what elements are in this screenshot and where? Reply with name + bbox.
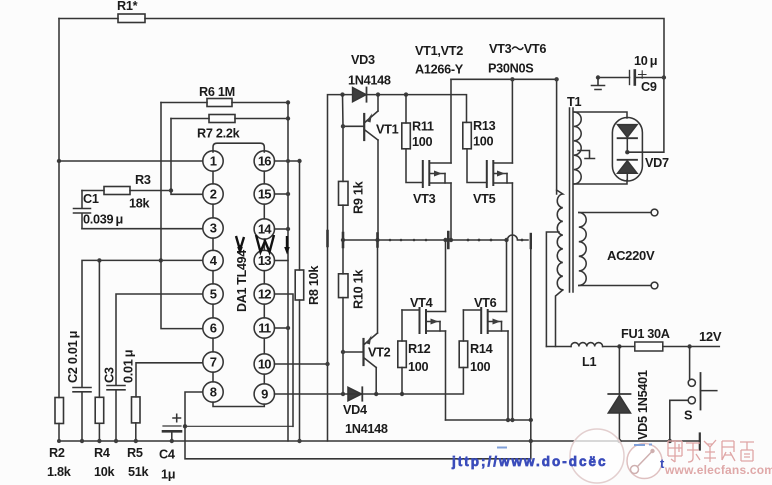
resistor R1: [118, 14, 145, 23]
svg-text:R12: R12: [408, 342, 431, 356]
svg-text:VT2: VT2: [368, 346, 391, 360]
wire VD7 center to right rail: [627, 78, 664, 153]
svg-text:5: 5: [210, 287, 217, 302]
ground rail end bar: [699, 434, 701, 450]
svg-text:R2: R2: [49, 446, 65, 460]
node R11 top junction: [404, 92, 408, 96]
resistor R13: [463, 122, 487, 182]
svg-text:14: 14: [258, 222, 272, 237]
node pin4-R6rail junction: [159, 258, 163, 262]
wire R9 R10 column: [342, 95, 345, 394]
svg-text:R7 2.2k: R7 2.2k: [197, 127, 241, 141]
pin numbers right: [258, 154, 272, 402]
node pin15 junction: [286, 192, 290, 196]
svg-text:16: 16: [258, 154, 271, 169]
node 12V switch junction: [687, 344, 691, 348]
node VD3 anode junction: [340, 92, 344, 96]
mosfet VT4: [420, 240, 446, 420]
watermark logo circle: [627, 444, 662, 479]
resistor R5: [132, 397, 141, 441]
svg-text:100: 100: [470, 360, 491, 374]
node VT1 base junction: [341, 124, 345, 128]
wire pin8 to C4: [185, 392, 203, 426]
svg-text:0.01 μ: 0.01 μ: [122, 350, 136, 383]
svg-text:10 μ: 10 μ: [634, 54, 657, 68]
wire primary center tap: [546, 232, 559, 347]
wire pin12 to C4: [275, 294, 294, 426]
ground symbol at C9: [592, 78, 605, 90]
node pin4-R4 junction: [97, 258, 101, 262]
node R12 bottom junction: [400, 392, 404, 396]
svg-text:DA1 TL494: DA1 TL494: [235, 250, 249, 312]
wire source bus bottom: [446, 419, 531, 421]
watermark elecfans url: [664, 463, 772, 477]
wire pin3: [82, 228, 203, 230]
wire pin10 to VD3 rail: [275, 363, 328, 365]
wire feedback winding to VD7 bottom: [574, 180, 627, 184]
wire right rail x288: [287, 103, 289, 442]
node C9 right junction: [662, 75, 666, 79]
svg-text:8: 8: [210, 385, 217, 400]
svg-text:C2 0.01 μ: C2 0.01 μ: [66, 331, 80, 383]
pin numbers left: [210, 154, 218, 400]
svg-text:7: 7: [210, 355, 217, 370]
transformer T1 feedback winding top right: [574, 112, 581, 184]
svg-text:2: 2: [210, 187, 217, 202]
watermark blue url text: [451, 454, 665, 471]
inductor L1: [546, 343, 619, 347]
mid bus with hop: [343, 235, 528, 240]
node switch ground junction: [668, 439, 672, 443]
svg-text:FU1 30A: FU1 30A: [621, 327, 670, 341]
wire primary bottom lead: [556, 290, 563, 347]
svg-text:VT1: VT1: [376, 123, 399, 137]
node VD5 ground junction: [617, 439, 621, 443]
switch S: [670, 347, 717, 442]
svg-text:VD5 1N5401: VD5 1N5401: [636, 370, 650, 440]
resistor R12: [398, 310, 420, 394]
wire pin9 to VD4: [275, 393, 344, 395]
wire VD3 feed rail x327: [328, 95, 343, 441]
wire left rail: [58, 19, 60, 398]
IC DA1 pin circles left column 1-8: [203, 151, 223, 402]
node ground dots: [57, 439, 174, 443]
svg-text:51k: 51k: [128, 465, 150, 479]
wire pin14: [275, 228, 289, 230]
resistor R6: [161, 99, 288, 107]
svg-text:100: 100: [412, 135, 433, 149]
svg-text:R13: R13: [473, 119, 496, 133]
mosfet VT6: [481, 240, 508, 420]
node VD3 cathode junction: [376, 92, 380, 96]
rectifier VD7: [612, 118, 642, 182]
svg-text:R5: R5: [127, 446, 143, 460]
svg-text:100: 100: [408, 360, 429, 374]
ground rail B lower: [185, 426, 530, 459]
watermark faint circle left: [570, 429, 624, 483]
transistor VT2: [343, 240, 378, 394]
svg-text:VT5: VT5: [473, 192, 496, 206]
node VD4 anode junction: [341, 392, 345, 396]
wire pin2: [171, 191, 203, 195]
node VT2 collector junction: [374, 392, 378, 396]
svg-text:R14: R14: [470, 342, 493, 356]
watermark blue dashes: [497, 445, 652, 448]
wire pin11: [275, 327, 289, 329]
wire R7 left rail: [170, 119, 172, 191]
transistor VT1: [343, 95, 378, 240]
svg-text:R8 10k: R8 10k: [307, 265, 321, 305]
IC DA1 pin circles right column 16-9: [254, 151, 274, 404]
diode VD5 1N5401: [608, 347, 630, 442]
svg-text:12V: 12V: [699, 329, 722, 344]
svg-text:1μ: 1μ: [161, 468, 175, 482]
svg-text:0.039 μ: 0.039 μ: [83, 213, 123, 227]
capacitor C9 electrolytic: [598, 71, 664, 85]
node pin10 rail junction: [325, 362, 329, 366]
node R7 right junction: [286, 116, 290, 120]
svg-text:R9 1k: R9 1k: [352, 180, 366, 214]
svg-text:VD3: VD3: [351, 53, 375, 67]
transformer T1 core: [570, 108, 574, 292]
node VD7 center tap: [625, 150, 629, 154]
capacitor C3: [107, 386, 125, 442]
svg-text:12: 12: [258, 287, 271, 302]
node bus junction dots: [341, 238, 509, 242]
svg-text:R10 1k: R10 1k: [352, 269, 366, 309]
resistor R9: [339, 181, 349, 205]
svg-text:R3: R3: [135, 173, 151, 187]
wire gate drive line VD3 to R11 R13: [378, 95, 467, 123]
resistor R2: [55, 398, 64, 424]
node source bus dots: [506, 418, 515, 422]
capacitor C4 electrolytic: [163, 414, 293, 441]
resistor R7: [171, 115, 288, 123]
svg-text:L1: L1: [582, 355, 596, 369]
svg-text:C4: C4: [159, 448, 175, 462]
wire pin1: [59, 160, 203, 162]
node VT2 base junction: [341, 350, 345, 354]
wire top rail from left corner to right corner: [59, 19, 664, 78]
diode VD3 1N4148: [343, 88, 379, 102]
svg-text:1N4148: 1N4148: [345, 422, 388, 436]
svg-text:C3: C3: [103, 367, 117, 383]
svg-text:P30N0S: P30N0S: [488, 62, 533, 76]
wire pin15: [275, 193, 289, 195]
wire pin4: [82, 260, 203, 387]
wire pin7: [136, 363, 203, 397]
node drain rail dots: [510, 77, 559, 81]
node R8 rail ground dot: [297, 439, 301, 443]
wire pin1-pin16 top bracket: [213, 143, 264, 152]
node C9 left junction: [596, 75, 600, 79]
wire pin5: [116, 294, 203, 385]
node bus tick bars: [328, 231, 449, 248]
resistor R10: [339, 274, 349, 298]
svg-text:100: 100: [473, 135, 494, 149]
wire pin13: [275, 260, 289, 262]
wire VD4 line to R12 R14: [376, 368, 463, 395]
svg-text:3: 3: [210, 221, 217, 236]
svg-text:VT3～VT6: VT3～VT6: [489, 42, 546, 56]
node pin1 rail junction: [57, 159, 61, 163]
node R6 right junction: [286, 100, 290, 104]
mosfet VT5: [487, 79, 513, 420]
wire bus end down to ground rails: [530, 248, 532, 459]
fuse FU1: [619, 342, 719, 351]
resistor R11: [402, 95, 423, 183]
svg-text:R4: R4: [94, 446, 110, 460]
svg-text:11: 11: [258, 321, 271, 336]
diode VD4 1N4148: [343, 387, 376, 400]
node pin11 junction: [286, 326, 290, 330]
watermark chinese characters: [668, 440, 754, 462]
svg-text:R1*: R1*: [117, 0, 138, 13]
node L1 FU1 junction: [617, 344, 621, 348]
ground rail A bottom: [59, 440, 700, 442]
wire pin8-pin9 bottom bracket: [213, 402, 264, 406]
node bus-end ground dots: [529, 418, 533, 443]
wire AC220V top terminal: [579, 209, 658, 216]
svg-text:R11: R11: [412, 120, 434, 134]
wire pin16 to R8 rail: [275, 160, 300, 162]
bus end bar: [530, 234, 532, 248]
svg-text:VT4: VT4: [410, 296, 433, 310]
node R3 right junction: [169, 188, 173, 192]
svg-text:18k: 18k: [129, 197, 151, 211]
svg-text:15: 15: [258, 187, 271, 202]
svg-text:C9: C9: [641, 80, 657, 94]
resistor R3: [82, 187, 171, 195]
svg-text:10: 10: [258, 357, 271, 372]
svg-text:1N4148: 1N4148: [348, 74, 391, 88]
capacitor C1: [74, 191, 91, 229]
svg-text:9: 9: [261, 387, 268, 402]
svg-text:R6 1M: R6 1M: [199, 85, 235, 99]
svg-text:S: S: [684, 409, 692, 423]
wire top drain rail: [451, 79, 557, 194]
svg-text:10k: 10k: [94, 465, 116, 479]
wire AC220V bottom terminal: [579, 282, 658, 289]
svg-text:6: 6: [210, 321, 217, 336]
annotation arrows at pins 13 14: [236, 235, 287, 252]
resistor R8: [295, 161, 304, 441]
wire R2 to ground rail: [58, 424, 60, 442]
transformer T1 secondary winding AC220V: [579, 213, 586, 286]
node bus texture dots: [389, 239, 524, 242]
mosfet VT3: [423, 79, 451, 240]
svg-text:www.elecfans.com: www.elecfans.com: [664, 463, 772, 477]
wire feedback winding to VD7 top: [574, 112, 627, 118]
svg-text:C1: C1: [83, 192, 99, 206]
svg-text:VD4: VD4: [343, 403, 367, 417]
resistor R4: [95, 260, 104, 441]
svg-text:13: 13: [258, 253, 271, 268]
wire R6 left rail down to pin6: [161, 103, 203, 329]
svg-text:1.8k: 1.8k: [47, 465, 72, 479]
transformer T1 primary winding left: [557, 190, 563, 290]
svg-text:jttp;//www.do-dcёc: jttp;//www.do-dcёc: [451, 454, 608, 469]
svg-text:VT6: VT6: [474, 296, 497, 310]
svg-text:VT1,VT2: VT1,VT2: [415, 44, 463, 58]
node pin14 junction: [286, 227, 290, 231]
svg-text:T1: T1: [567, 95, 581, 109]
resistor R14: [459, 310, 481, 368]
svg-text:VD7: VD7: [645, 156, 669, 170]
svg-text:AC220V: AC220V: [607, 248, 655, 263]
svg-text:1: 1: [210, 154, 217, 169]
capacitor C2: [73, 388, 91, 442]
svg-text:VT3: VT3: [413, 192, 436, 206]
svg-text:A1266-Y: A1266-Y: [415, 63, 464, 77]
feedback winding tap: [578, 151, 595, 159]
node pin16 junction: [297, 159, 301, 163]
node C4 plus junction: [183, 424, 187, 428]
